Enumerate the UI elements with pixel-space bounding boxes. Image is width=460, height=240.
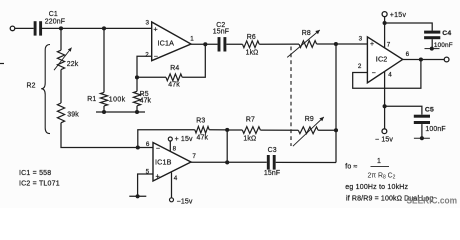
wire (276, 161, 336, 163)
svg-text:C1: C1 (49, 11, 58, 18)
wire (60, 70, 62, 103)
resistor R4 47k (166, 65, 182, 89)
note frequency range (345, 184, 408, 191)
capacitor C5 (414, 107, 446, 134)
pin4 stub (171, 173, 173, 198)
svg-text:− 15v: − 15v (375, 136, 393, 143)
note IC types (19, 170, 60, 188)
output terminal (444, 57, 449, 62)
watermark (407, 196, 458, 207)
svg-text:+: + (156, 171, 160, 180)
brace R2 (27, 45, 51, 134)
svg-text:47k: 47k (168, 82, 180, 89)
wire (15, 27, 34, 29)
node input/R1 (102, 26, 106, 30)
node R8/IC2 (334, 42, 338, 46)
pin7 stub (384, 17, 386, 48)
svg-text:1kΩ: 1kΩ (246, 49, 259, 56)
op-amp IC2 (358, 36, 410, 83)
wire IC2 output (403, 59, 445, 61)
svg-text:IC2 = TL071: IC2 = TL071 (19, 181, 60, 188)
svg-text:2π R8 C2: 2π R8 C2 (368, 173, 396, 181)
resistor R6 1k (243, 34, 260, 57)
capacitor C4 (424, 30, 453, 49)
node input/R2 (59, 26, 63, 30)
svg-text:IC1A: IC1A (158, 38, 175, 47)
-15v terminal IC1B (170, 198, 193, 206)
svg-text:−: − (154, 53, 158, 60)
svg-text:100k: 100k (109, 96, 126, 103)
svg-text:3: 3 (146, 20, 150, 27)
wire pin5 IC1B (138, 174, 153, 195)
-15v terminal IC2 (375, 129, 393, 144)
+15v terminal IC2 (382, 12, 406, 20)
svg-text:47k: 47k (140, 97, 152, 104)
node R1 foot (102, 110, 106, 114)
node IC1A out (203, 42, 207, 46)
svg-text:+15v: +15v (390, 12, 407, 19)
svg-text:220nF: 220nF (45, 18, 65, 25)
wire (42, 27, 152, 29)
wire (209, 129, 227, 131)
resistor R9 (298, 116, 318, 134)
input terminal (10, 26, 15, 31)
svg-text:R1: R1 (87, 96, 96, 103)
capacitor C2 (213, 22, 229, 52)
svg-text:2: 2 (145, 51, 149, 58)
wire pin2 IC1A (137, 56, 152, 77)
wire C5 branch (385, 106, 422, 114)
formula fo (345, 158, 395, 180)
svg-text:+: + (153, 25, 157, 34)
wire (60, 28, 62, 50)
wiper arrow R8 (287, 30, 320, 57)
svg-text:C4: C4 (442, 30, 451, 37)
resistor R1 100k (87, 92, 125, 106)
wire (431, 39, 433, 47)
wiper arrow 22k (54, 48, 72, 71)
wire (227, 129, 242, 131)
svg-text:R6: R6 (247, 34, 256, 41)
wire pin2 feedback IC2 (353, 60, 421, 89)
svg-text:15nF: 15nF (264, 170, 280, 177)
svg-text:1kΩ: 1kΩ (243, 136, 256, 143)
svg-text:−15v: −15v (177, 198, 193, 205)
wire (136, 77, 138, 91)
svg-text:+ 15v: + 15v (175, 136, 193, 143)
capacitor C3 (264, 147, 280, 177)
svg-text:R2: R2 (27, 83, 36, 90)
svg-text:C3: C3 (268, 147, 277, 154)
resistor R2b 39k (57, 103, 79, 123)
resistor R8 (299, 30, 317, 48)
svg-text:6: 6 (146, 141, 150, 148)
wire +15v to C4 (385, 23, 433, 31)
svg-text:IC1B: IC1B (155, 157, 172, 166)
svg-text:C5: C5 (425, 107, 434, 114)
op-amp IC1B (146, 141, 197, 182)
wire (335, 44, 337, 163)
svg-text:SEEKIC.com: SEEKIC.com (407, 196, 458, 207)
resistor R2a 22k (57, 50, 78, 69)
wire (259, 43, 299, 45)
op-amp IC1A (145, 20, 194, 61)
svg-text:1: 1 (377, 158, 381, 165)
resistor R5 47k (133, 91, 151, 106)
svg-text:−: − (156, 146, 160, 153)
node -15v/C5 (383, 104, 387, 108)
svg-text:−: − (372, 70, 376, 77)
pin4 stub IC2 (384, 72, 386, 129)
svg-text:R7: R7 (246, 117, 255, 124)
svg-text:R3: R3 (196, 118, 205, 125)
wire (137, 76, 166, 78)
note pot value (346, 195, 433, 202)
pin8 stub (169, 141, 171, 151)
svg-text:7: 7 (387, 42, 391, 49)
resistor R3 47k (195, 118, 209, 142)
wire (260, 129, 298, 131)
wire (421, 124, 423, 137)
svg-text:3: 3 (359, 36, 363, 43)
wire (226, 43, 242, 45)
svg-text:100nF: 100nF (425, 126, 445, 133)
svg-text:eg 100Hz to 10kHz: eg 100Hz to 10kHz (345, 184, 408, 191)
svg-text:IC2: IC2 (376, 54, 388, 63)
svg-text:+: + (370, 41, 374, 48)
svg-text:R4: R4 (170, 65, 179, 72)
wire R3R7 to output (226, 130, 228, 163)
wire (318, 129, 336, 131)
node R4/R5/pin2 (135, 75, 139, 79)
svg-text:2: 2 (358, 63, 362, 70)
svg-text:39k: 39k (67, 112, 79, 119)
svg-text:R9: R9 (305, 116, 314, 123)
node +15v rail (383, 21, 387, 25)
node out/R3R7 (225, 160, 229, 164)
wire (103, 106, 105, 112)
svg-text:fo ≈: fo ≈ (345, 164, 357, 171)
wire (103, 28, 105, 92)
ground (129, 194, 146, 198)
svg-text:47k: 47k (197, 135, 209, 142)
svg-text:22k: 22k (67, 61, 79, 68)
wire (191, 161, 267, 163)
ground C4 (425, 47, 440, 51)
ground C5 (414, 136, 430, 140)
node pin6 IC1B (136, 145, 140, 149)
svg-text:15nF: 15nF (213, 29, 229, 36)
svg-text:8: 8 (173, 145, 177, 152)
node IC2 out (419, 57, 423, 61)
wire (138, 130, 195, 148)
resistor R7 1k (242, 117, 260, 143)
node R9/right rail (334, 128, 338, 132)
wire (136, 106, 138, 112)
wire (182, 44, 205, 77)
wire (317, 43, 368, 45)
svg-text:1: 1 (190, 36, 194, 43)
wire (61, 123, 153, 148)
wire (191, 43, 218, 45)
svg-text:7: 7 (192, 153, 196, 160)
wire R1-R5 rail (96, 111, 145, 113)
svg-text:IC1 = 558: IC1 = 558 (19, 170, 51, 177)
svg-text:100nF: 100nF (434, 42, 453, 49)
capacitor C1 (34, 11, 65, 35)
svg-text:4: 4 (388, 72, 392, 79)
node R5 foot (135, 110, 139, 114)
edge tick (0, 63, 4, 65)
+15v terminal IC1B (168, 136, 193, 143)
svg-text:R8: R8 (302, 30, 311, 37)
svg-text:6: 6 (406, 51, 410, 58)
svg-text:4: 4 (174, 175, 178, 182)
wiper arrow R9 (293, 117, 324, 146)
gang link R8-R9 (290, 47, 292, 147)
node R3/R7 (225, 128, 229, 132)
